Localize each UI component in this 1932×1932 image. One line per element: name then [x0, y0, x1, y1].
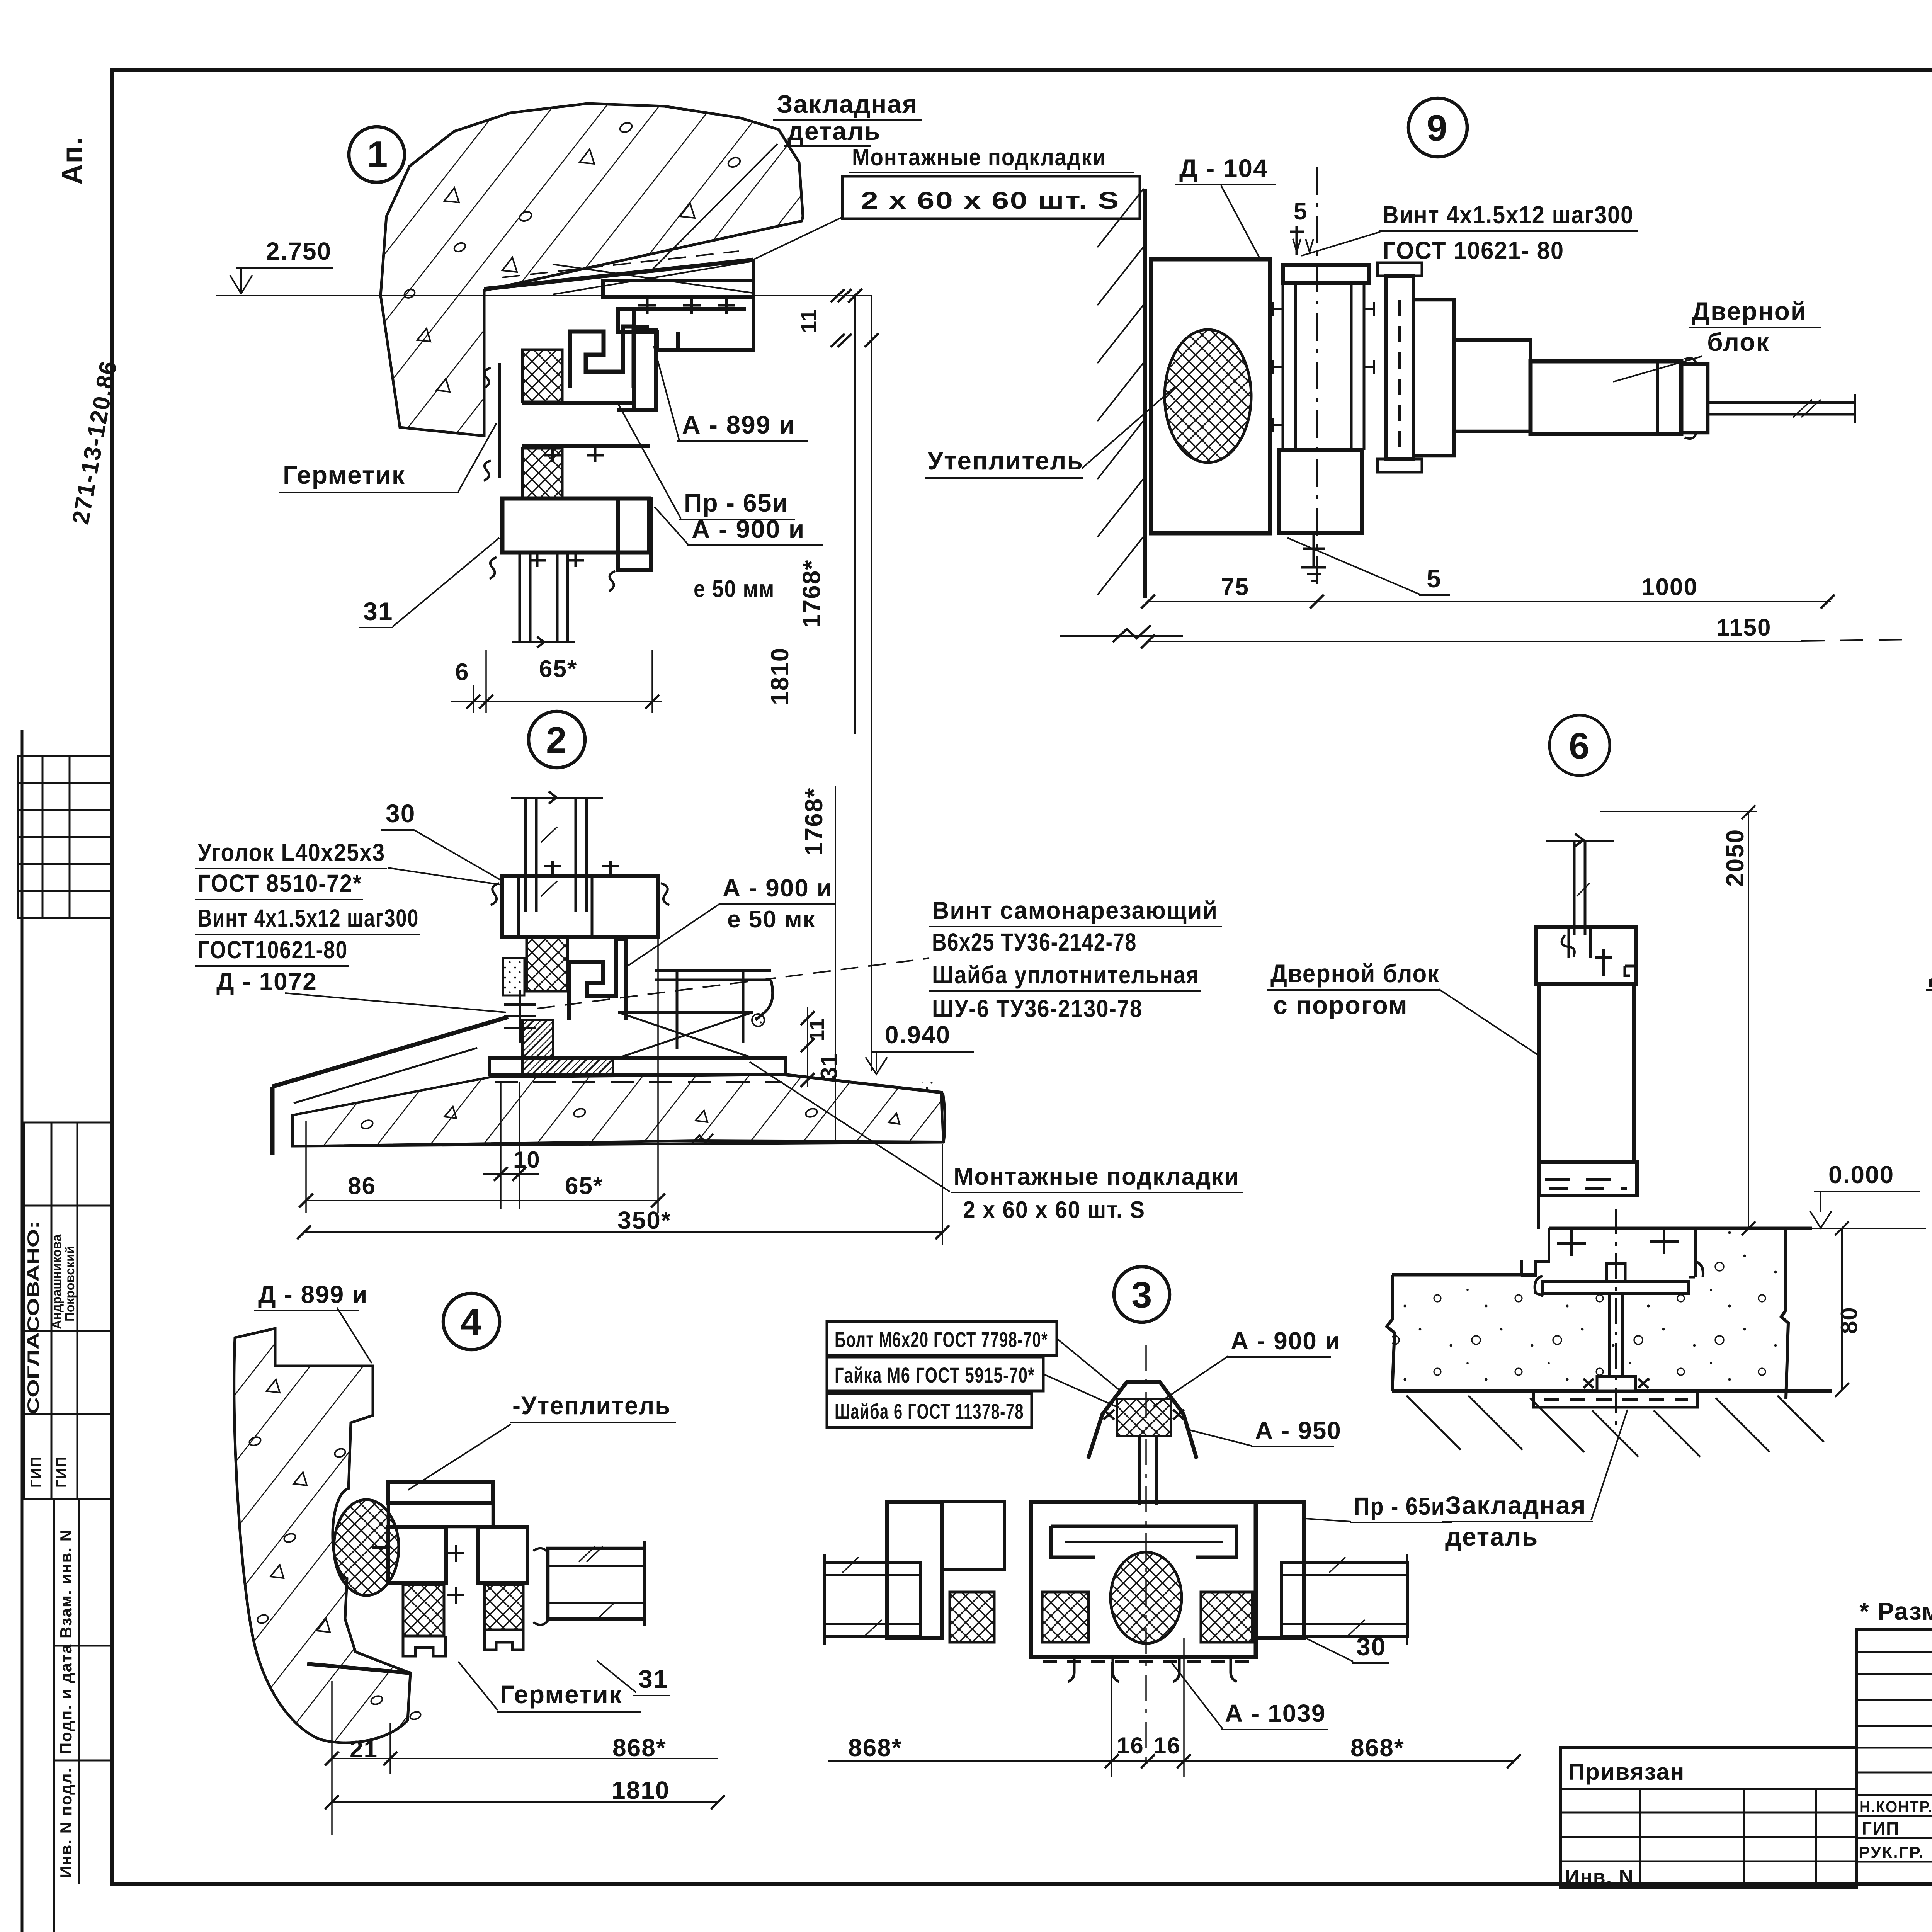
svg-text:Пр - 65и: Пр - 65и	[1354, 1492, 1445, 1520]
body gaskets	[1042, 1592, 1088, 1642]
screw symbols on rail	[638, 297, 735, 314]
outer border left lower	[21, 730, 24, 1932]
svg-text:Подп. и дата: Подп. и дата	[57, 1644, 75, 1754]
slab edges	[1387, 1275, 1395, 1391]
svg-text:4: 4	[461, 1301, 482, 1343]
svg-text:А - 899 и: А - 899 и	[682, 410, 795, 439]
left stamp blocks	[53, 1499, 55, 1932]
bottom feet hooks with dashed seal	[1068, 1657, 1237, 1682]
vertical dimension 1768*	[854, 294, 856, 734]
bottom-left hook	[490, 557, 497, 579]
bolt with washers (Винт)	[519, 990, 521, 1043]
door glass above	[1546, 834, 1614, 935]
svg-text:Шайба уплотнительная: Шайба уплотнительная	[932, 961, 1199, 989]
lower frame box	[502, 498, 649, 553]
svg-text:Андрашникова: Андрашникова	[49, 1234, 64, 1329]
wall gap sealant line	[498, 363, 501, 478]
svg-text:Пр - 65и: Пр - 65и	[684, 488, 788, 517]
rail screws	[551, 861, 554, 876]
svg-text:* Размеры для справок: * Размеры для справок	[1859, 1597, 1932, 1625]
узел 2 marker circle	[529, 711, 585, 768]
svg-text:11: 11	[805, 1018, 828, 1041]
dimension line 1810 (узел 4)	[332, 1801, 718, 1803]
svg-text:Болт М6х20 ГОСТ 7798-70*: Болт М6х20 ГОСТ 7798-70*	[835, 1327, 1048, 1352]
svg-text:80: 80	[1836, 1306, 1862, 1334]
svg-text:2 x 60 x 60 шт. S: 2 x 60 x 60 шт. S	[861, 187, 1120, 214]
svg-text:1000: 1000	[1641, 574, 1698, 600]
svg-text:СОГЛАСОВАНО:: СОГЛАСОВАНО:	[24, 1221, 42, 1414]
right jamb block	[634, 330, 656, 410]
right window glass	[1282, 1554, 1407, 1645]
base plate on slab	[490, 1058, 785, 1075]
break mark in slab bottom	[692, 1134, 713, 1144]
svg-text:ГИП: ГИП	[1862, 1818, 1900, 1838]
leader закладная	[649, 144, 777, 273]
vertical dimension 1810 line	[871, 296, 872, 1071]
svg-text:Герметик: Герметик	[500, 1680, 622, 1709]
top rail profile	[603, 281, 753, 297]
svg-text:с порогом: с порогом	[1273, 991, 1408, 1019]
axis centerline	[1615, 1209, 1617, 1430]
svg-text:6: 6	[455, 659, 469, 685]
svg-text:Гайка М6 ГОСТ 5915-70*: Гайка М6 ГОСТ 5915-70*	[835, 1363, 1035, 1387]
sloped embedded panel	[484, 260, 753, 289]
svg-text:3: 3	[1131, 1274, 1153, 1316]
axis dash-dot	[1145, 1345, 1147, 1762]
threshold steps	[1521, 1196, 1549, 1276]
svg-text:868*: 868*	[612, 1734, 667, 1762]
sill pan slope	[272, 1017, 508, 1087]
gasket crosshatch	[527, 937, 568, 991]
dimension 75 / 1000	[1148, 601, 1831, 602]
leaf end cap	[1681, 364, 1708, 433]
узел 6 marker circle	[1549, 715, 1610, 776]
svg-text:Привязан: Привязан	[1568, 1759, 1685, 1785]
door leaf	[1531, 361, 1681, 434]
leaders from boxes	[1057, 1338, 1121, 1391]
svg-text:Инв. N: Инв. N	[1565, 1866, 1634, 1888]
svg-text:Утеплитель: Утеплитель	[927, 446, 1083, 475]
aggregate marks	[248, 1379, 346, 1632]
svg-text:Закладная: Закладная	[777, 90, 918, 118]
svg-text:1768*: 1768*	[800, 787, 828, 856]
svg-text:31: 31	[638, 1665, 668, 1693]
S-bracket profile А-899и	[570, 327, 634, 388]
узел 3 marker circle	[1114, 1267, 1170, 1322]
wall break bottom	[1060, 635, 1183, 637]
svg-text:5: 5	[1294, 198, 1308, 225]
узел 9 marker circle	[1408, 98, 1467, 157]
svg-text:Шайба 6 ГОСТ 11378-78: Шайба 6 ГОСТ 11378-78	[835, 1399, 1024, 1423]
svg-text:11: 11	[796, 309, 821, 333]
svg-text:Дверной: Дверной	[1692, 297, 1807, 325]
svg-text:0.000: 0.000	[1828, 1161, 1894, 1189]
window board	[655, 969, 771, 972]
wall line	[1143, 189, 1147, 598]
lower profile	[1279, 450, 1362, 533]
door frame connector	[1413, 300, 1454, 456]
svg-text:е 50 мк: е 50 мк	[727, 906, 816, 933]
left gasket	[950, 1592, 994, 1642]
axis dash-dot	[1316, 167, 1318, 591]
S-bracket А-900и	[569, 939, 626, 1020]
dashed leader to screw	[537, 958, 929, 1009]
embedded anchor plate	[1543, 1281, 1689, 1294]
svg-text:Ап.: Ап.	[56, 136, 88, 185]
concrete wall mass (hatched)	[381, 104, 803, 436]
floor slab concrete (two levels)	[1392, 1229, 1786, 1391]
svg-text:30: 30	[386, 799, 415, 828]
svg-text:деталь: деталь	[787, 117, 881, 145]
omega profile inside body	[1051, 1526, 1236, 1557]
left window glass	[825, 1554, 920, 1645]
svg-text:деталь: деталь	[1445, 1522, 1538, 1551]
dimension 2050	[1748, 811, 1749, 1228]
svg-text:1150: 1150	[1716, 614, 1772, 641]
узел 1 marker circle	[349, 127, 405, 182]
svg-text:9: 9	[1427, 107, 1448, 149]
узел 4 marker circle	[443, 1293, 500, 1350]
frame bars	[1273, 226, 1374, 581]
svg-text:А - 950: А - 950	[1255, 1417, 1342, 1444]
svg-text:1810: 1810	[766, 647, 794, 705]
plus marks on floor	[1557, 1228, 1679, 1256]
svg-text:А - 1039: А - 1039	[1225, 1699, 1326, 1727]
svg-text:Винт самонарезающий: Винт самонарезающий	[932, 896, 1218, 924]
dimension 1150	[1148, 641, 1801, 642]
sill frame top rail	[272, 861, 773, 1155]
svg-text:ГОСТ10621-80: ГОСТ10621-80	[198, 936, 348, 964]
ground hatch	[1406, 1396, 1824, 1457]
approvals table lower (names)	[24, 1122, 111, 1499]
dimension 80	[1841, 1228, 1843, 1390]
svg-text:Винт 4х1.5х12 шаг300: Винт 4х1.5х12 шаг300	[1383, 201, 1634, 229]
dimension line 86 / 65*	[306, 1200, 659, 1201]
svg-text:6: 6	[1569, 725, 1590, 767]
dimension 868* 16 16 868* (узел 3)	[828, 1760, 1514, 1762]
svg-text:А - 900 и: А - 900 и	[723, 874, 833, 902]
dimension line 350*	[304, 1231, 943, 1233]
leader подкладки	[752, 217, 842, 260]
boxed label Гайка	[827, 1357, 1043, 1391]
svg-text:75: 75	[1221, 574, 1249, 600]
mullion cap	[1088, 1382, 1197, 1459]
svg-text:РУК.ГР.: РУК.ГР.	[1859, 1843, 1924, 1861]
svg-text:В6х25 ТУ36-2142-78: В6х25 ТУ36-2142-78	[932, 928, 1137, 956]
vertical dimension 1768* (узел 2)	[835, 786, 836, 1141]
svg-text:Герметик: Герметик	[283, 461, 405, 489]
svg-text:1: 1	[367, 134, 388, 175]
right corner profile	[618, 260, 753, 350]
boxed label Шайба	[827, 1393, 1032, 1427]
svg-text:Покровский: Покровский	[63, 1246, 77, 1321]
svg-text:ГИП: ГИП	[54, 1456, 70, 1488]
concrete slab (hatched)	[293, 1075, 943, 1146]
glass panel right	[548, 1548, 645, 1619]
mullion profile (item 5)	[1378, 263, 1422, 472]
X brace band	[618, 1011, 753, 1014]
svg-text:65*: 65*	[539, 656, 577, 682]
insulation crosshatch oval	[1165, 330, 1251, 463]
aggregate marks in concrete	[403, 121, 742, 392]
svg-text:Закладная: Закладная	[1445, 1491, 1587, 1519]
svg-text:Взам. инв. N: Взам. инв. N	[57, 1529, 75, 1638]
door glass stub	[1708, 394, 1855, 423]
svg-text:1810: 1810	[612, 1776, 670, 1804]
screw bottom with ground mark	[1313, 534, 1315, 567]
svg-text:Дверной блок: Дверной блок	[1270, 959, 1440, 988]
dimension line 868* (узел 4)	[332, 1758, 718, 1759]
svg-text:ШУ-6 ТУ36-2130-78: ШУ-6 ТУ36-2130-78	[932, 995, 1143, 1022]
svg-text:-Утеплитель: -Утеплитель	[512, 1391, 671, 1420]
svg-text:31: 31	[363, 597, 393, 626]
hatched angle bracket	[522, 1020, 613, 1074]
svg-text:868*: 868*	[1350, 1734, 1405, 1762]
anchor nut	[1597, 1376, 1636, 1391]
concrete strip below wall	[370, 1694, 383, 1706]
door panel	[1539, 984, 1634, 1162]
svg-text:31: 31	[816, 1053, 842, 1080]
svg-text:ГОСТ 8510-72*: ГОСТ 8510-72*	[198, 869, 362, 897]
svg-text:1768*: 1768*	[798, 560, 825, 628]
svg-text:блок: блок	[1707, 328, 1770, 356]
X brace on panel	[553, 261, 753, 294]
svg-text:2: 2	[546, 719, 567, 761]
svg-text:Монтажные подкладки: Монтажные подкладки	[852, 144, 1106, 171]
glass unit above sill	[511, 791, 603, 912]
svg-text:16: 16	[1153, 1733, 1181, 1759]
svg-text:2.750: 2.750	[266, 237, 332, 265]
glass unit verticals	[519, 553, 521, 641]
svg-text:16: 16	[1117, 1733, 1144, 1759]
anchor stem	[1607, 1264, 1625, 1281]
anchor pocket walls	[1694, 1228, 1697, 1277]
right jamb	[1256, 1502, 1304, 1638]
svg-text:86: 86	[348, 1173, 376, 1199]
door top rail	[1536, 927, 1636, 984]
svg-text:ГИП: ГИП	[28, 1456, 44, 1488]
boxed label Болт	[827, 1321, 1057, 1355]
svg-text:ГОСТ 10621- 80: ГОСТ 10621- 80	[1383, 236, 1564, 264]
screw top	[1296, 226, 1298, 255]
small approvals table upper	[18, 756, 111, 918]
wall hatch ticks	[1097, 189, 1144, 595]
svg-text:е 50 мм: е 50 мм	[694, 576, 775, 602]
dotted sealant strip	[503, 958, 524, 995]
door bottom rail	[1539, 1162, 1637, 1196]
gasket crosshatch lower	[522, 448, 562, 498]
svg-text:Винт 4х1.5х12 шаг300: Винт 4х1.5х12 шаг300	[198, 904, 419, 932]
svg-text:65*: 65*	[565, 1173, 603, 1199]
mullion body	[1031, 1502, 1256, 1657]
svg-text:2 х 60 х 60 шт. S: 2 х 60 х 60 шт. S	[963, 1197, 1145, 1223]
aggregate in slab	[360, 1107, 900, 1130]
svg-text:2050: 2050	[1721, 829, 1749, 887]
svg-text:Н.КОНТР.: Н.КОНТР.	[1859, 1798, 1932, 1816]
svg-text:А - 900 и: А - 900 и	[1231, 1327, 1341, 1355]
svg-text:Д - 899 и: Д - 899 и	[258, 1281, 368, 1308]
floor top lines	[1392, 1273, 1536, 1277]
right flashing slope	[785, 1075, 943, 1093]
gasket crosshatch upper	[522, 350, 562, 402]
small vertical dims 11 / 31	[807, 1007, 808, 1087]
svg-text:Монтажные подкладки: Монтажные подкладки	[954, 1163, 1240, 1190]
frame profiles	[372, 1482, 645, 1656]
svg-text:Д - 104: Д - 104	[1179, 154, 1268, 182]
mid member	[522, 401, 634, 405]
level line 2.750	[216, 295, 872, 296]
svg-text:5: 5	[1427, 564, 1442, 593]
svg-text:Д - 1072: Д - 1072	[216, 968, 317, 995]
insulation oval (Утеплитель)	[334, 1500, 399, 1595]
mullion bolt channel	[1138, 1436, 1141, 1505]
insulation box	[1151, 259, 1270, 533]
svg-text:0.940: 0.940	[885, 1021, 951, 1049]
svg-text:350*: 350*	[617, 1206, 672, 1234]
right lower jamb	[618, 498, 651, 570]
svg-text:Инв. N подл.: Инв. N подл.	[57, 1767, 75, 1878]
concrete wall mass (hatched)	[234, 1328, 410, 1743]
svg-text:10: 10	[513, 1147, 541, 1173]
left jamb	[887, 1502, 942, 1638]
svg-text:А - 900 и: А - 900 и	[692, 515, 805, 543]
svg-text:30: 30	[1356, 1632, 1386, 1661]
embedded plate dashed below slab	[1534, 1391, 1697, 1407]
svg-text:Уголок L40х25х3: Уголок L40х25х3	[198, 838, 385, 866]
svg-text:868*: 868*	[848, 1734, 902, 1762]
aux table Привязан / Инв N	[1561, 1748, 1857, 1888]
frame jamb cluster	[484, 327, 656, 648]
main stamp table	[1857, 1629, 1932, 1884]
center insulation oval	[1111, 1552, 1182, 1643]
svg-text:Дверной блок: Дверной блок	[1929, 959, 1932, 988]
